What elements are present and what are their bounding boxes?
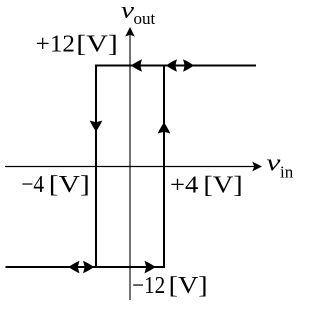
axis v_out (y-axis)	[129, 34, 131, 300]
svg-text:[V]: [V]	[76, 32, 118, 58]
svg-text:v: v	[266, 151, 280, 177]
svg-text:[V]: [V]	[169, 273, 208, 299]
bottom output line at -12 V	[6, 266, 166, 268]
left transition line at -4 V	[95, 65, 97, 269]
arrow right on bottom line	[145, 261, 156, 274]
y-axis arrowhead	[125, 27, 135, 37]
svg-text:[V]: [V]	[49, 172, 90, 198]
x-axis arrowhead	[252, 162, 262, 172]
svg-text:v: v	[121, 0, 134, 24]
axis v_in (x-axis)	[5, 166, 254, 168]
double arrow on top line: right head	[183, 59, 194, 72]
double arrow on top line: left head	[166, 59, 177, 72]
svg-text:+4: +4	[170, 173, 198, 199]
double arrow on bottom line: left head	[69, 261, 80, 274]
svg-text:[V]: [V]	[203, 173, 242, 199]
svg-text:+12: +12	[36, 32, 75, 58]
double arrow on bottom line: right head	[83, 261, 94, 274]
up arrow on right transition line	[158, 123, 171, 134]
svg-text:in: in	[280, 163, 294, 182]
svg-text:out: out	[134, 9, 156, 28]
svg-text:−12: −12	[132, 273, 165, 299]
arrow left on top line	[131, 59, 142, 72]
right transition line at +4 V	[163, 65, 165, 269]
top output line at +12 V	[95, 65, 256, 67]
svg-text:−4: −4	[21, 172, 44, 198]
down arrow on left transition line	[90, 121, 103, 132]
